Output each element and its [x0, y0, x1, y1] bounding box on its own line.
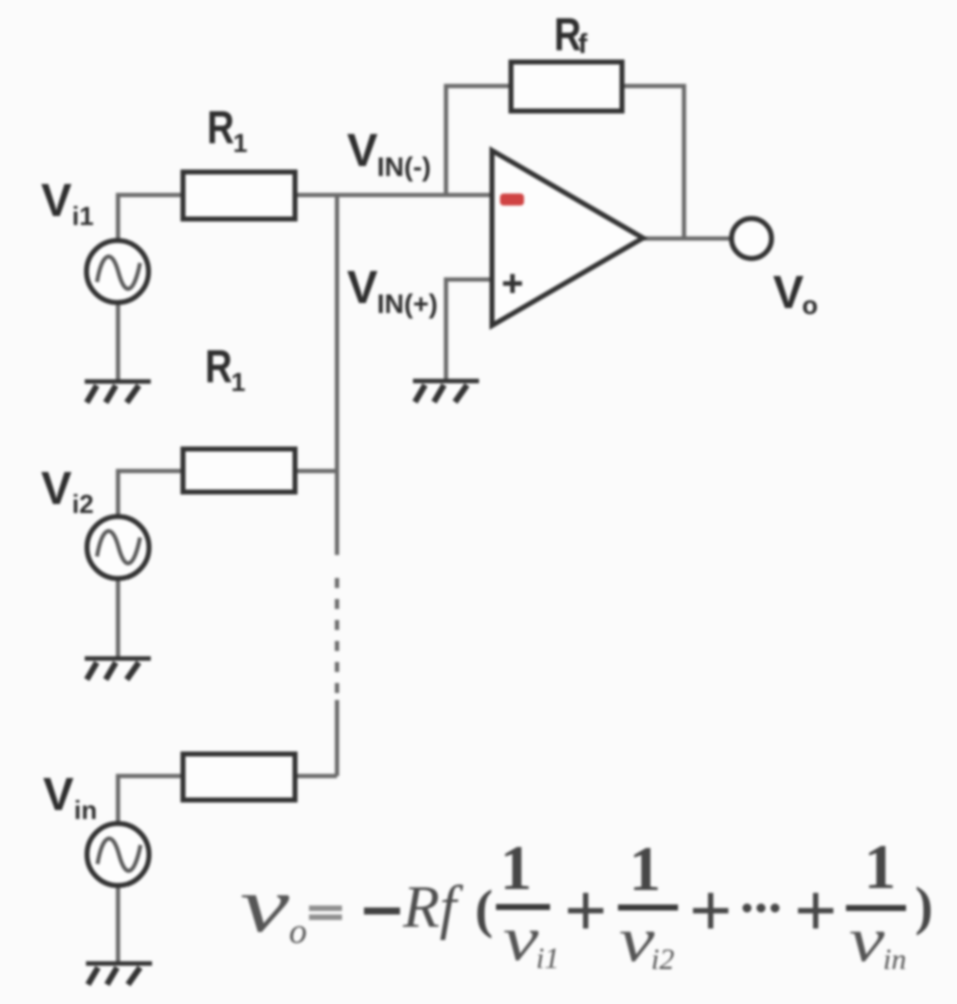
- svg-text:1: 1: [864, 831, 896, 902]
- svg-text:V: V: [347, 124, 378, 176]
- svg-text:in: in: [883, 943, 906, 976]
- svg-text:i1: i1: [72, 201, 94, 231]
- svg-text:in: in: [74, 795, 97, 825]
- svg-text:1: 1: [231, 367, 245, 397]
- svg-text:+: +: [564, 869, 607, 953]
- svg-text:V: V: [41, 174, 72, 226]
- svg-text:V: V: [773, 266, 804, 318]
- svg-text:R: R: [207, 101, 234, 152]
- svg-text:1: 1: [629, 833, 661, 904]
- svg-text:1: 1: [500, 832, 532, 903]
- svg-text:V: V: [41, 462, 72, 514]
- svg-text:V: V: [43, 768, 74, 820]
- svg-text:o: o: [289, 911, 307, 951]
- svg-text:V: V: [347, 261, 378, 313]
- svg-text:IN(-): IN(-): [377, 152, 431, 182]
- svg-text:(: (: [475, 879, 493, 939]
- svg-text:+: +: [794, 869, 837, 953]
- svg-text:): ): [915, 876, 933, 936]
- svg-text:v: v: [503, 903, 539, 975]
- svg-text:i1: i1: [536, 942, 559, 975]
- svg-text:1: 1: [233, 128, 247, 158]
- svg-text:+: +: [689, 869, 732, 953]
- svg-text:i2: i2: [651, 943, 674, 976]
- svg-text:Rf: Rf: [402, 874, 464, 940]
- svg-text:i2: i2: [72, 489, 94, 519]
- svg-text:f: f: [578, 28, 588, 59]
- svg-text:R: R: [205, 340, 232, 391]
- svg-text:o: o: [802, 290, 818, 320]
- svg-text:v: v: [619, 904, 655, 976]
- svg-text:v: v: [849, 904, 885, 976]
- svg-text:v: v: [240, 862, 290, 948]
- svg-text:IN(+): IN(+): [377, 289, 438, 319]
